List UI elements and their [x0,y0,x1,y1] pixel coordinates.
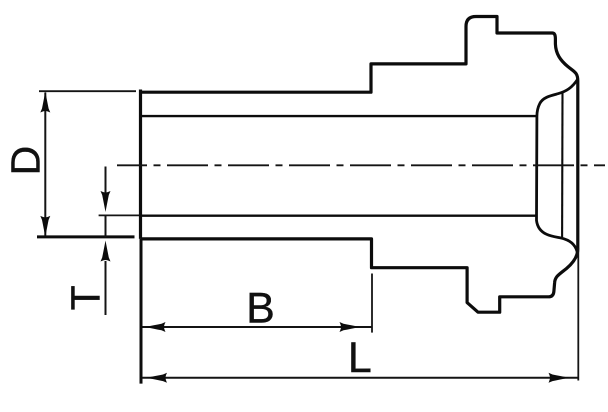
dimension D extension line bottom [37,235,135,238]
dimension L extension line right [577,248,579,381]
svg-text:L: L [348,334,372,382]
dimension D line [44,93,46,237]
svg-text:D: D [3,146,49,176]
dimension D extension line top [39,90,136,92]
bore line top [141,115,537,117]
svg-text:B: B [246,284,275,332]
centerline [117,164,605,166]
dimension L line [142,377,578,379]
dimension T arrow down [101,191,111,212]
dimension B line [142,326,372,328]
dimension L arrow right [549,373,570,383]
bore line bottom [141,214,537,216]
part outline [141,17,578,313]
dimension L arrow left [146,373,167,383]
dimension L extension line left [140,239,143,384]
end face edge line [561,92,564,237]
end face chamfer arc [537,79,578,254]
dimension T line [105,167,107,316]
dimension T arrow up [101,241,111,262]
dimension T extension line [99,214,139,216]
svg-text:T: T [63,285,109,310]
dimension D arrow up [40,92,50,113]
dimension B arrow left [145,322,166,332]
dimension B arrow right [340,322,361,332]
dimension D arrow down [40,216,50,237]
dimension B extension line [371,274,373,333]
